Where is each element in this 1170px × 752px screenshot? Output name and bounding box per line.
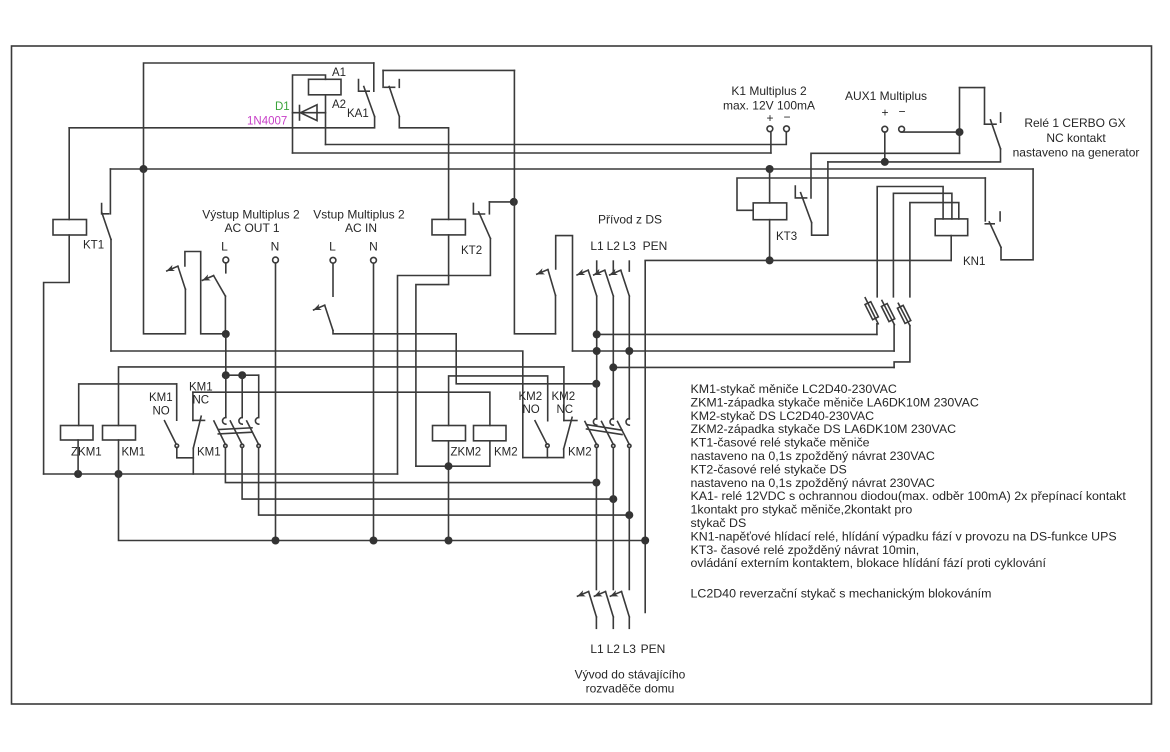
svg-text:L1: L1 — [590, 239, 604, 253]
relay coil KN1 — [935, 219, 968, 236]
contact KM2 pole1 — [585, 419, 598, 448]
contactor coil KM2 — [474, 426, 507, 441]
junction dot AC OUT N neutral — [272, 537, 280, 545]
wire KA1 A1 terminal loop — [293, 75, 326, 153]
wire KT1 coil top — [68, 128, 70, 220]
junction dot coil return neutral — [445, 537, 453, 545]
junction dot coil bottoms node — [445, 462, 453, 470]
svg-text:KM2: KM2 — [494, 447, 518, 459]
wire KT1 contact output to bus1 — [110, 240, 112, 352]
junction dot KT3 bottom on y=260.4 — [766, 256, 774, 264]
wire line A (y=351) DS aux leg to fuse F2 — [573, 350, 895, 352]
junction dot pole2 merge — [609, 495, 617, 503]
svg-text:KM1: KM1 — [149, 392, 173, 404]
wire KM2 NO/NC output rail (y=457.6) — [523, 457, 564, 459]
wire KM1 coil bottom — [118, 440, 120, 474]
svg-text:A1: A1 — [332, 67, 346, 79]
junction dot KM1 bottom — [115, 470, 123, 478]
wire KA1 A2 terminal down — [325, 95, 327, 145]
wire AUX1 minus to CERBO riser (y=132) — [902, 131, 960, 133]
svg-text:KM1-stykač měniče LC2D40-230VA: KM1-stykač měniče LC2D40-230VAC — [691, 382, 897, 396]
terminal circle AC OUT N — [273, 257, 279, 263]
svg-text:ZKM2-západka stykače DS LA6DK1: ZKM2-západka stykače DS LA6DK10M 230VAC — [691, 422, 957, 436]
svg-text:KA1- relé 12VDC s ochrannou di: KA1- relé 12VDC s ochrannou diodou(max. … — [691, 489, 1127, 503]
contact exit L1 with actuator arrow — [578, 592, 597, 629]
relay coil KT2 — [432, 219, 465, 235]
svg-text:−: − — [898, 105, 905, 119]
svg-text:Výstup Multiplus 2: Výstup Multiplus 2 — [202, 208, 300, 222]
svg-text:LC2D40 reverzační stykač s mec: LC2D40 reverzační stykač s mechanickým b… — [691, 587, 992, 601]
mechanical link KM2 poles — [587, 425, 623, 435]
contact KA1 no.1 — [359, 63, 375, 117]
svg-text:KM1: KM1 — [197, 447, 221, 459]
junction dot AC IN L tie at DS L1 — [592, 380, 600, 388]
wire KT1 coil bottom to left column — [44, 235, 70, 474]
fuse F1 (L1 sense) — [865, 298, 878, 335]
wire KT3 coil top from y=169 — [769, 169, 771, 203]
relay coil KA1 — [309, 79, 342, 95]
wire KM1 NC bottom to bus474 — [192, 448, 194, 474]
junction dot pole1 merge — [592, 479, 600, 487]
svg-text:KT1-časové relé stykače měniče: KT1-časové relé stykače měniče — [691, 436, 870, 450]
wire KM1 pole1 output — [225, 448, 596, 483]
svg-text:D1: D1 — [275, 101, 290, 113]
svg-text:Vývod do stávajícího: Vývod do stávajícího — [575, 668, 686, 682]
junction dot AUX minus riser — [956, 128, 964, 136]
wire DS aux contact output — [555, 295, 557, 333]
svg-text:L3: L3 — [623, 642, 637, 656]
wire coil-bottom bus (y=474) — [44, 473, 398, 475]
wire AC IN N to neutral bus — [373, 263, 375, 540]
svg-text:KM1: KM1 — [122, 447, 146, 459]
contact KM2 pole3 — [618, 419, 632, 448]
junction dot AC IN N neutral — [370, 537, 378, 545]
junction dot AC OUT L node — [222, 330, 230, 338]
terminal circle K1 plus — [767, 126, 773, 132]
wire KM1 NO output stub — [177, 448, 194, 458]
wire KM1 pole2 top — [241, 375, 243, 417]
wire y=169 right end drop to KN1 contact — [1001, 169, 1033, 260]
svg-text:L: L — [221, 240, 228, 254]
wire A2 to K1 minus (y=144.5) — [326, 132, 787, 145]
svg-text:nastaveno na generator: nastaveno na generator — [1013, 146, 1140, 160]
terminal circle K1 minus — [784, 126, 790, 132]
wire AC OUT contact1 output — [144, 169, 186, 334]
wire output L1 drop to exit contact — [595, 483, 597, 590]
wire L1 sense line (y=334) to fuse F1 — [597, 333, 877, 335]
fuse F3 (L2 sense) — [894, 303, 911, 367]
wire ZKM2/KM2 coil bottoms — [448, 441, 450, 541]
contact KT2 (NO) — [473, 202, 513, 239]
contact KM2 pole2 — [602, 419, 616, 448]
wire KM1 pole3 output — [259, 448, 630, 515]
svg-text:Relé 1 CERBO GX: Relé 1 CERBO GX — [1024, 116, 1125, 130]
svg-text:KT1: KT1 — [83, 240, 104, 252]
wire KN1 measuring loop L1 — [877, 187, 943, 297]
contact KN1 (NC) — [985, 178, 1001, 247]
wire CERBO riser vertical — [959, 88, 961, 154]
wire KA1 contact2 output to KT2 coil — [399, 117, 448, 220]
svg-text:ZKM1: ZKM1 — [71, 447, 102, 459]
svg-text:NC kontakt: NC kontakt — [1046, 131, 1106, 145]
mechanical link KM1 poles — [218, 428, 252, 434]
svg-text:KT3: KT3 — [776, 231, 797, 243]
terminal tick DS L2 — [612, 261, 614, 271]
contact DS L2 with actuator arrow — [594, 270, 614, 296]
svg-text:L3: L3 — [623, 239, 637, 253]
wire AC OUT N to neutral bus — [275, 263, 277, 541]
svg-text:L2: L2 — [607, 642, 621, 656]
wire KM2 coil bottom jog — [416, 441, 490, 466]
junction dot L1 sense — [593, 330, 601, 338]
wire KN1 coil bottom to PEN bus — [950, 236, 952, 261]
wire KT3 contact output loop to y=162 node — [812, 162, 828, 235]
contact Rele 1 CERBO GX (NC) — [985, 88, 1001, 149]
wire L2 sense segment (y=367.4) to fuse F3 — [613, 366, 894, 368]
svg-text:L2: L2 — [607, 239, 621, 253]
wire AC OUT contact bridge — [185, 252, 226, 334]
svg-text:NO: NO — [153, 406, 170, 418]
wire KN1 measuring loop L3 — [910, 203, 959, 297]
svg-text:KA1: KA1 — [347, 108, 369, 120]
svg-text:K1 Multiplus 2: K1 Multiplus 2 — [731, 84, 807, 98]
contact KA1 no.2 (NC) — [383, 70, 399, 116]
wire big vertical (KA1 ctc2 to DS aux contact) — [514, 70, 555, 333]
diode D1 1N4007 — [293, 105, 326, 121]
contact KM1 NC auxiliary — [193, 392, 205, 448]
contact KM1 NO auxiliary — [165, 384, 179, 448]
wire AC IN L output to DS L1 tie — [333, 331, 596, 384]
relay coil KT3 — [753, 203, 787, 220]
svg-text:PEN: PEN — [641, 642, 666, 656]
wire KM1 NO fixed feed / ZKM1 top (y=383.9) — [79, 384, 177, 426]
wire KM1 pole bridge (y=375.2) — [226, 374, 259, 376]
junction dot node (143.5,169) — [140, 165, 148, 173]
svg-text:1N4007: 1N4007 — [247, 116, 287, 128]
wire bus y=169 (K1/KT1/KN1 control line) — [110, 168, 1033, 170]
svg-text:L: L — [329, 240, 336, 254]
wire PEN relay return bus (y=260.4) — [645, 259, 951, 261]
junction dot AUX plus on y=161.9 — [881, 158, 889, 166]
svg-text:NC: NC — [557, 404, 574, 416]
svg-text:KM2-stykač DS LC2D40-230VAC: KM2-stykač DS LC2D40-230VAC — [691, 409, 875, 423]
svg-text:KT2-časové relé stykače DS: KT2-časové relé stykače DS — [691, 462, 847, 476]
svg-text:KM2: KM2 — [568, 447, 592, 459]
svg-text:NC: NC — [193, 395, 210, 407]
contact DS L3 with actuator arrow — [610, 270, 630, 296]
junction dot L1 on line A — [593, 347, 601, 355]
svg-text:+: + — [881, 106, 888, 120]
svg-text:KT3- časové relé zpožděný návr: KT3- časové relé zpožděný návrat 10min, — [691, 543, 920, 557]
terminal circle AUX1 minus — [899, 126, 905, 132]
svg-text:stykač DS: stykač DS — [691, 516, 747, 530]
wire ZKM2 top to KM2 NO fixed (y=375.9) — [449, 376, 548, 426]
svg-text:KN1: KN1 — [963, 256, 985, 268]
wire ZKM1 coil bottom — [77, 440, 79, 474]
svg-text:PEN: PEN — [643, 239, 668, 253]
svg-text:AC IN: AC IN — [345, 221, 377, 235]
junction dot pole3 merge — [625, 511, 633, 519]
wire KA1 top feed (y=63) — [144, 63, 374, 169]
wire KM1 bottom to neutral bus — [119, 474, 646, 541]
svg-text:nastaveno na 0,1s zpožděný náv: nastaveno na 0,1s zpožděný návrat 230VAC — [691, 449, 935, 463]
svg-text:NO: NO — [523, 404, 540, 416]
wire KT3 coil bottom to PEN bus — [769, 220, 771, 261]
wire bus1 (y=351) KT1 output to KM2 NO — [111, 351, 523, 458]
contact KM1 pole3 — [247, 418, 261, 448]
svg-text:1kontakt pro stykač měniče,2ko: 1kontakt pro stykač měniče,2kontakt pro — [691, 503, 913, 517]
wire DS L2 drop — [612, 296, 614, 419]
contactor coil ZKM1 — [61, 426, 94, 441]
contact exit L3 with actuator arrow — [610, 592, 629, 629]
wire KM1 pole1 top — [225, 375, 227, 417]
contact KM2 NO auxiliary — [535, 421, 549, 458]
component description text block — [691, 382, 1127, 601]
junction dot ZKM1 bottom — [74, 470, 82, 478]
junction dot L3 on line A — [625, 347, 633, 355]
svg-text:+: + — [766, 111, 773, 125]
wire KM1 pole3 top — [258, 375, 260, 417]
wire AC OUT L node down to KM1 poles — [225, 334, 227, 375]
svg-text:N: N — [271, 240, 280, 254]
wire KT2 contact output (y=275.5) — [398, 239, 491, 475]
terminal tick DS L1 — [596, 261, 598, 271]
wire CERBO output / AUX plus node (y=161.9) — [828, 149, 1001, 162]
wire CERBO contact top feed (y=87.6) — [960, 87, 985, 89]
wire KM2 pole3 output — [628, 448, 630, 515]
svg-text:L1: L1 — [590, 642, 604, 656]
wire A1-loop to K1 plus (y=153 segment A) — [293, 152, 771, 154]
wire KT3 contact fixed feed (y=153.3 segment B) — [811, 153, 960, 198]
fuse F2 (L3 sense) — [881, 301, 894, 352]
terminal circle AC OUT L — [223, 257, 229, 263]
svg-text:ovládání externím kontaktem, b: ovládání externím kontaktem, blokace hlí… — [691, 556, 1047, 570]
wire KA1 contact2 top (y=70.4) — [383, 69, 514, 71]
contact AC OUT no.1 with actuator arrow — [167, 266, 186, 289]
svg-text:rozvaděče domu: rozvaděče domu — [586, 682, 675, 696]
contactor coil KM1 — [103, 426, 136, 441]
contact KT1 (NO) — [102, 169, 111, 240]
svg-text:−: − — [783, 110, 790, 124]
svg-text:AUX1 Multiplus: AUX1 Multiplus — [845, 89, 927, 103]
wire output L2 drop to exit contact — [612, 499, 614, 589]
terminal circle AC IN N — [371, 257, 377, 263]
relay coil KT1 — [53, 220, 87, 236]
svg-text:ZKM1-západka stykače měniče LA: ZKM1-západka stykače měniče LA6DK10M 230… — [691, 395, 979, 409]
junction dot KT3 coil top on y=169 — [766, 165, 774, 173]
contactor coil ZKM2 — [433, 426, 466, 441]
wire AC IN L stub — [332, 263, 334, 296]
contact DS aux (KT3 controlled) with actuator arrow — [537, 236, 573, 351]
terminal circle AC IN L — [330, 257, 336, 263]
wire KM2 pole2 output — [612, 448, 614, 500]
svg-text:N: N — [369, 240, 378, 254]
wire KA1 contact1 output to KT1 (y=127.8) — [69, 117, 374, 128]
svg-text:ZKM2: ZKM2 — [451, 447, 482, 459]
wire KT2 coil bottom jog — [416, 235, 449, 466]
svg-text:AC OUT 1: AC OUT 1 — [224, 221, 279, 235]
wire AC OUT L stub — [225, 263, 227, 273]
wire bus2 (y=366.9) KM2 NC to KM1 coil — [119, 367, 564, 426]
contact AC OUT no.2 with actuator arrow — [203, 276, 226, 297]
junction dot KT2 contact top on big vertical — [510, 198, 518, 206]
junction dot L2 sense — [609, 363, 617, 371]
contact KM2 NC auxiliary — [564, 367, 577, 458]
wire KM1 NC interlock to KM2 coil (y=392.2) — [193, 392, 490, 425]
junction dot PEN neutral — [641, 537, 649, 545]
wire DS PEN down — [644, 261, 646, 612]
terminal tick DS L3 — [628, 261, 630, 271]
wire DS L1 drop — [596, 296, 598, 419]
svg-text:KT2: KT2 — [461, 245, 482, 257]
contact KM1 pole2 — [230, 418, 244, 448]
contact DS L1 with actuator arrow — [577, 270, 597, 296]
wire KM1 pole2 output — [242, 448, 613, 500]
svg-text:KM2: KM2 — [519, 391, 543, 403]
svg-text:KN1-napěťové hlídací relé, hlí: KN1-napěťové hlídací relé, hlídání výpad… — [691, 529, 1117, 543]
svg-text:Vstup Multiplus 2: Vstup Multiplus 2 — [313, 208, 405, 222]
contact KT3 (NO) — [795, 186, 811, 223]
wire DS L3 drop — [628, 296, 630, 419]
wire AC OUT contact2 output — [224, 296, 226, 334]
contact KM1 pole1 — [214, 418, 227, 448]
wire K1 plus stub — [770, 132, 772, 153]
wire output L3 drop to exit contact — [628, 515, 630, 589]
wire KM2 pole1 output — [596, 448, 598, 483]
terminal circle AUX1 plus — [882, 126, 888, 132]
junction dot KM1 pole1 bridge — [222, 371, 230, 379]
svg-text:Přívod z DS: Přívod z DS — [598, 213, 662, 227]
wire KN1 measuring loop L2 — [893, 193, 952, 296]
svg-text:KM2: KM2 — [552, 391, 576, 403]
svg-text:A2: A2 — [332, 99, 346, 111]
contact AC IN L with actuator arrow — [314, 305, 333, 330]
svg-text:nastaveno na 0,1s zpožděný náv: nastaveno na 0,1s zpožděný návrat 230VAC — [691, 476, 935, 490]
junction dot KM1 pole2 bridge — [238, 371, 246, 379]
wire AUX1 plus stub down to node — [884, 132, 886, 162]
wire KT3 coil side loop to KN1 contact fixed (y=177.5) — [737, 178, 985, 210]
contact exit L2 with actuator arrow — [594, 592, 613, 629]
